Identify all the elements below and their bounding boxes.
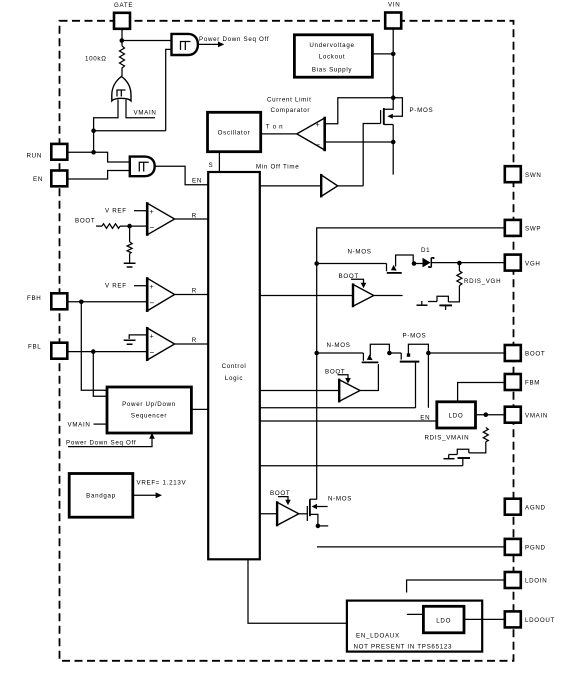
svg-text:Control: Control	[222, 363, 247, 370]
op-amp comparator3 (FBL)	[147, 328, 174, 360]
transistor VGH discharge FET	[428, 296, 448, 302]
IC boundary dashed border	[60, 21, 514, 661]
wire PGND rail	[317, 546, 505, 548]
pin GATE	[114, 13, 130, 29]
wire OR gate left input down-left to junction	[94, 100, 118, 131]
svg-text:VREF= 1.213V: VREF= 1.213V	[137, 479, 187, 486]
resistor RDIS_VMAIN	[483, 428, 488, 442]
wire UVLO to VIN rail	[372, 53, 393, 55]
wire VIN rail	[392, 29, 394, 98]
pin PGND	[505, 539, 521, 555]
svg-text:Current Limit: Current Limit	[267, 97, 312, 104]
wire SWP rail	[317, 228, 505, 499]
svg-text:N-MOS: N-MOS	[348, 248, 372, 255]
wire P-MOS gate to min-off buffer output	[363, 124, 380, 186]
buffer min off time	[321, 175, 338, 197]
wire VREF to comparator2 plus	[134, 285, 147, 287]
svg-text:LDO: LDO	[449, 412, 464, 419]
wire LDO output to VMAIN pin	[476, 414, 505, 416]
svg-text:EN: EN	[420, 415, 430, 422]
node RUN junction	[91, 150, 96, 155]
wire VMAIN into sequencer	[94, 423, 108, 425]
svg-text:Lockout: Lockout	[319, 54, 346, 61]
transistor P-MOS BOOT switch	[400, 353, 402, 360]
pin AGND	[505, 499, 521, 515]
svg-text:Comparator: Comparator	[271, 107, 311, 114]
svg-text:LDO: LDO	[436, 618, 451, 625]
ground comparator3	[124, 340, 136, 344]
svg-text:BOOT: BOOT	[525, 351, 545, 358]
svg-text:−: −	[150, 299, 155, 308]
svg-text:+: +	[150, 334, 154, 341]
svg-text:Power Down Seq Off: Power Down Seq Off	[199, 36, 269, 43]
node BOOT pin junction	[426, 351, 431, 356]
wire BOOT row to N-MOS	[317, 352, 364, 354]
svg-text:EN: EN	[33, 176, 43, 183]
block Undervoltage Lockout Bias Supply	[294, 35, 372, 77]
svg-text:RDIS_VMAIN: RDIS_VMAIN	[425, 434, 470, 441]
block LDO VMAIN	[437, 402, 476, 428]
block Oscillator	[208, 112, 261, 151]
node GATE junction	[120, 38, 125, 43]
diode D1	[423, 258, 431, 268]
block EN_LDOAUX outer	[347, 601, 482, 652]
block LDO AUX	[423, 606, 464, 633]
block Bandgap	[69, 474, 133, 518]
svg-text:Sequencer: Sequencer	[131, 413, 167, 420]
svg-text:SWP: SWP	[525, 226, 541, 233]
node SWP/BOOT junction	[314, 351, 319, 356]
svg-text:VMAIN: VMAIN	[68, 421, 91, 428]
svg-text:VGH: VGH	[525, 260, 541, 267]
wire bandgap VREF output arrow	[133, 494, 157, 496]
node FBL junction	[91, 349, 96, 354]
wire junction to seq-off gate lower input	[94, 49, 172, 130]
wire VREF to comparator1 plus	[134, 210, 147, 212]
buffer BOOT driver2 with bootstrap arrow	[338, 375, 349, 379]
pin FBL	[51, 343, 67, 359]
wire control to BOOT driver3	[260, 513, 277, 515]
svg-text:Undervoltage: Undervoltage	[309, 42, 354, 49]
svg-text:EN_LDOAUX: EN_LDOAUX	[356, 633, 400, 640]
svg-text:R: R	[192, 337, 197, 344]
svg-text:Bias Supply: Bias Supply	[312, 67, 353, 74]
buffer BOOT driver3 with bootstrap arrow	[278, 497, 288, 500]
wire comparator1 output R	[175, 218, 209, 220]
svg-text:V REF: V REF	[105, 208, 127, 215]
pin RUN	[51, 144, 67, 160]
wire BOOT driver1 output stub	[374, 295, 403, 297]
svg-text:Oscillator: Oscillator	[218, 130, 251, 137]
pin VMAIN	[505, 407, 521, 423]
op-amp current limit comparator	[297, 118, 325, 150]
wire between switches	[389, 352, 401, 354]
svg-text:P-MOS: P-MOS	[410, 107, 434, 114]
ground VGH discharge	[417, 304, 428, 306]
pin LDOIN	[505, 572, 521, 588]
wire FBH down to sequencer	[81, 302, 107, 391]
node VIN/P-MOS source junction	[391, 95, 396, 100]
wire GATE pin to pull-up resistor	[121, 29, 123, 47]
wire control to BOOT driver1	[260, 295, 353, 297]
svg-text:R: R	[192, 212, 197, 219]
gate U2 Power Down Seq Off (Schmitt AND)	[172, 34, 198, 55]
wire junction down to RUN node	[93, 131, 95, 153]
svg-text:LDOIN: LDOIN	[525, 578, 547, 585]
node SWP/VGH junction	[314, 261, 319, 266]
node UVLO/VIN junction	[391, 52, 396, 57]
svg-text:−: −	[150, 348, 155, 357]
wire to diode	[414, 263, 423, 265]
node RDIS_VGH junction	[457, 261, 462, 266]
svg-text:GATE: GATE	[114, 2, 133, 9]
wire ground to comparator3 plus	[129, 335, 147, 339]
wire GATE junction to PowerDownSeqOff gate top input	[122, 40, 172, 42]
block Power Up/Down Sequencer	[107, 387, 191, 433]
wire comparator minus input	[325, 141, 394, 143]
op-amp comparator1 (high rail)	[147, 203, 174, 235]
pin BOOT	[505, 345, 521, 361]
node OR output junction	[91, 128, 96, 133]
svg-text:100kΩ: 100kΩ	[85, 56, 107, 63]
svg-text:S: S	[209, 162, 214, 169]
wire LDOAUX EN stub	[407, 613, 424, 615]
wire sequencer to control logic	[191, 408, 208, 410]
svg-text:RDIS_VGH: RDIS_VGH	[464, 278, 501, 285]
wire LDO top to FBM pin	[458, 383, 505, 402]
wire diode to VGH pin	[431, 262, 505, 264]
wire Power Down Seq Off output with arrow	[198, 43, 220, 45]
pin VGH	[505, 255, 521, 271]
svg-text:+: +	[150, 209, 154, 216]
svg-text:PGND: PGND	[525, 545, 546, 552]
wire BOOT with series resistor to comparator1 minus	[96, 225, 102, 227]
wire buffer output	[338, 185, 364, 187]
svg-text:FBL: FBL	[28, 344, 41, 351]
svg-text:V REF: V REF	[105, 283, 127, 290]
wire LDOIN feed	[407, 580, 505, 593]
wire FBL down to sequencer	[93, 352, 107, 397]
svg-text:RUN: RUN	[27, 153, 43, 160]
wire control to P-MOS drain	[260, 407, 416, 409]
wire OR gate right input VMAIN	[126, 100, 155, 118]
node BOOT switches junction1	[387, 351, 392, 356]
op-amp comparator2 (FBH)	[147, 278, 174, 311]
ground comparator1 divider	[124, 263, 136, 267]
wire control bottom to LDOAUX	[248, 559, 423, 623]
wire comparator output to oscillator T on	[261, 133, 297, 135]
block Control Logic	[208, 172, 260, 559]
svg-text:N-MOS: N-MOS	[328, 496, 352, 503]
transistor VMAIN discharge FET	[449, 449, 469, 454]
svg-text:+: +	[316, 122, 320, 129]
transistor N-MOS VGH rectifier	[386, 264, 388, 272]
node comparator1 minus junction	[127, 224, 132, 229]
wire driver3 to VGL N-MOS gate	[299, 513, 308, 515]
resistor to ground	[129, 226, 131, 242]
buffer BOOT driver1 with bootstrap arrow	[351, 279, 364, 283]
svg-text:D1: D1	[421, 247, 430, 254]
pin FBH	[51, 293, 67, 309]
svg-text:N-MOS: N-MOS	[327, 342, 351, 349]
svg-text:BOOT: BOOT	[75, 218, 95, 225]
pin VIN	[385, 13, 401, 29]
svg-text:BOOT: BOOT	[270, 490, 290, 497]
node FBH junction	[79, 300, 84, 305]
node VMAIN junction	[484, 412, 489, 417]
wire junction stub down	[427, 353, 429, 408]
ground VMAIN discharge	[444, 458, 455, 460]
wire comparator plus input	[325, 98, 394, 124]
svg-text:Min Off Time: Min Off Time	[256, 164, 299, 171]
svg-text:FBM: FBM	[525, 380, 540, 387]
gate U3 RUN/EN (Schmitt AND)	[130, 157, 155, 177]
svg-text:NOT PRESENT IN TPS65123: NOT PRESENT IN TPS65123	[354, 643, 453, 650]
wire control to BOOT driver2	[260, 390, 339, 392]
wire RUN to AND gate	[68, 152, 130, 162]
wire VGH row to N-MOS	[317, 263, 387, 265]
transistor N-MOS BOOT switch	[362, 353, 364, 361]
wire Power Down Seq Off into sequencer with up arrow	[68, 438, 152, 447]
wire comparator3 output R	[175, 343, 209, 345]
resistor 100k pull-up	[120, 46, 125, 76]
wire junction to BOOT pin	[428, 352, 504, 354]
svg-text:Power Down Seq Off: Power Down Seq Off	[66, 440, 136, 447]
node current sense junction	[391, 140, 396, 145]
wire comparator2 output R	[175, 294, 209, 296]
wire control to LDO EN	[260, 420, 437, 422]
svg-text:T o n: T o n	[266, 124, 284, 131]
svg-text:VMAIN: VMAIN	[134, 110, 157, 117]
svg-text:FBH: FBH	[27, 295, 41, 302]
pin LDOOUT	[505, 611, 521, 627]
pin SWP	[505, 220, 521, 236]
pin EN	[51, 171, 67, 187]
svg-text:VIN: VIN	[388, 2, 400, 9]
svg-text:−: −	[316, 141, 321, 150]
wire control to VMAIN discharge gate	[260, 465, 463, 467]
wire source stub	[318, 525, 328, 527]
transistor N-MOS VGL switch	[306, 506, 308, 521]
svg-text:EN: EN	[192, 177, 202, 184]
transistor P-MOS input switch	[384, 98, 403, 117]
wire BOOT driver2 output to N-MOS gate	[360, 364, 378, 391]
node VGL source junction	[316, 524, 321, 529]
svg-text:SWN: SWN	[525, 172, 542, 179]
svg-text:−: −	[150, 223, 155, 232]
resistor RDIS_VGH	[458, 263, 460, 271]
svg-text:AGND: AGND	[525, 504, 546, 511]
pin FBM	[505, 374, 521, 390]
svg-text:Logic: Logic	[225, 375, 243, 382]
node N-MOS drain junction	[412, 261, 417, 266]
wire FBH to comparator2 minus	[68, 301, 148, 303]
svg-text:LDOOUT: LDOOUT	[525, 617, 555, 624]
resistor comparator1 input	[102, 224, 120, 229]
wire control to min-off buffer	[260, 185, 321, 187]
svg-text:Power Up/Down: Power Up/Down	[122, 401, 176, 408]
pin SWN	[505, 166, 521, 182]
svg-text:VMAIN: VMAIN	[525, 412, 548, 419]
svg-text:Bandgap: Bandgap	[86, 492, 116, 499]
wire LDOAUX output to LDOOUT pin	[464, 618, 505, 620]
wire FBL to comparator3 minus	[68, 351, 148, 353]
wire oscillator S to control logic	[218, 152, 220, 172]
OR gate U1 (Schmitt, pointing up)	[112, 76, 131, 101]
wire AND gate output to Control Logic EN	[155, 166, 208, 185]
wire EN to AND gate	[68, 171, 130, 180]
svg-text:+: +	[150, 284, 154, 291]
svg-text:R: R	[192, 287, 197, 294]
svg-text:P-MOS: P-MOS	[403, 332, 427, 339]
